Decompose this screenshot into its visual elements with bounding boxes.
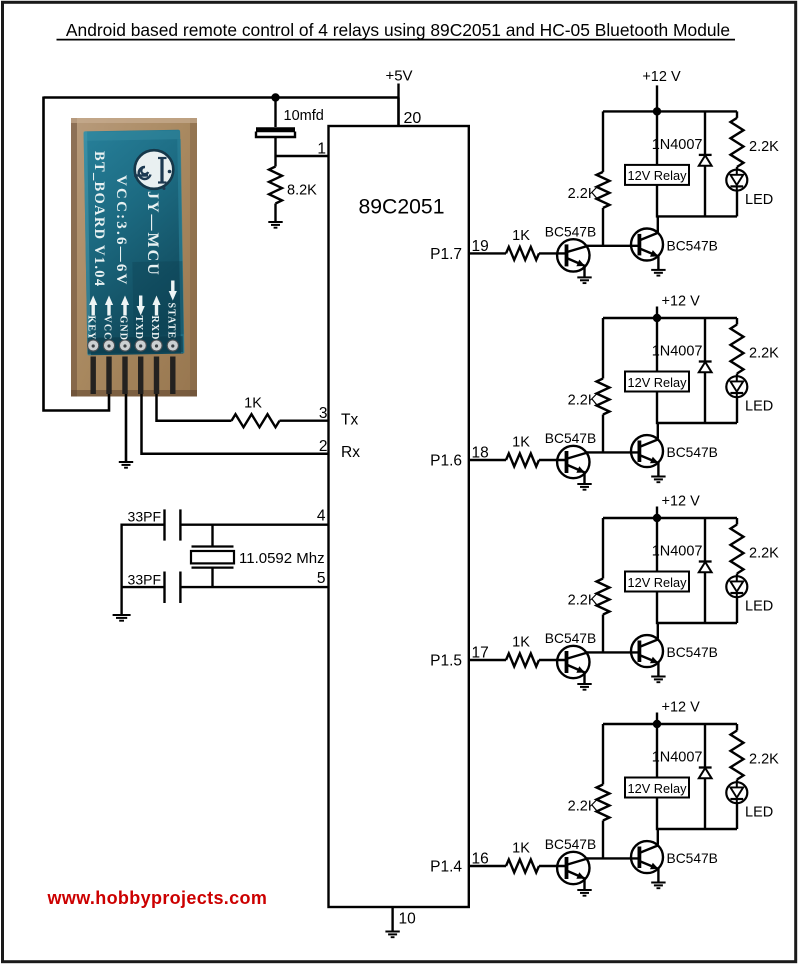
node +12V rail (circuit 3) bbox=[603, 494, 737, 519]
svg-text:1K: 1K bbox=[512, 435, 530, 451]
module pin arrow GND bbox=[121, 296, 129, 316]
svg-text:LED: LED bbox=[745, 192, 773, 208]
svg-text:P1.4: P1.4 bbox=[430, 859, 462, 876]
module pin arrow RXD bbox=[152, 296, 160, 316]
wire Q1 collector / Q2 base node bbox=[587, 651, 640, 653]
resistor 2.2K (LED, circuit 2) bbox=[731, 318, 780, 374]
svg-text:8.2K: 8.2K bbox=[287, 183, 317, 199]
svg-text:20: 20 bbox=[404, 110, 422, 127]
svg-text:12V Relay: 12V Relay bbox=[627, 375, 687, 390]
resistor 1K (base, circuit 3) bbox=[506, 635, 539, 667]
junction dot +12V node (circuit 3) bbox=[653, 514, 661, 522]
module solder pad TXD bbox=[135, 340, 146, 351]
svg-text:1N4007: 1N4007 bbox=[652, 750, 703, 766]
wire relay to bottom rail bbox=[656, 798, 658, 831]
svg-text:BC547B: BC547B bbox=[667, 851, 718, 866]
svg-text:VCC: VCC bbox=[102, 316, 113, 341]
relay coil wire (circuit 1) bbox=[656, 111, 658, 164]
svg-text:+12 V: +12 V bbox=[642, 69, 681, 85]
ground (pin 10) bbox=[385, 932, 399, 938]
module solder pad RXD bbox=[151, 340, 162, 351]
wire bottom rail (circuit 4) bbox=[657, 828, 737, 830]
svg-text:BC547B: BC547B bbox=[667, 445, 718, 460]
svg-text:BC547B: BC547B bbox=[545, 431, 596, 446]
svg-text:VCC:3.6—6V: VCC:3.6—6V bbox=[113, 175, 129, 287]
wire module TXD to pin 2 Rx bbox=[142, 394, 329, 454]
wire resistor to Q1 base bbox=[539, 459, 567, 461]
module header pin RXD bbox=[154, 357, 159, 395]
node +12V rail (circuit 4) bbox=[603, 700, 737, 725]
module pin arrow KEY bbox=[89, 296, 97, 316]
op-amp/IC U1 89C2051 bbox=[329, 126, 469, 907]
svg-text:1K: 1K bbox=[244, 396, 262, 412]
svg-text:16: 16 bbox=[472, 851, 489, 868]
svg-text:12V Relay: 12V Relay bbox=[627, 168, 687, 183]
wire Q1 collector / Q2 base node bbox=[587, 857, 640, 859]
crystal X1 11.0592 Mhz bbox=[191, 525, 325, 587]
resistor 2.2K (LED, circuit 1) bbox=[731, 111, 780, 166]
capacitor C2 33PF bbox=[122, 509, 181, 541]
diode 1N4007 (flyback, circuit 1) bbox=[652, 111, 712, 216]
svg-text:4: 4 bbox=[317, 508, 326, 525]
transistor Q2 BC547B (relay driver, circuit 3) bbox=[631, 623, 718, 677]
resistor 2.2K (pull-up to Q2 base, circuit 3) bbox=[568, 518, 610, 652]
module header pin TXD bbox=[138, 357, 143, 395]
module solder pad KEY bbox=[88, 340, 99, 351]
module solder pad STATE bbox=[167, 340, 178, 351]
wire pin 4 (XTAL) bbox=[180, 524, 328, 526]
svg-text:2.2K: 2.2K bbox=[568, 186, 598, 202]
svg-text:2.2K: 2.2K bbox=[749, 752, 779, 768]
svg-text:BC547B: BC547B bbox=[545, 224, 596, 239]
svg-text:19: 19 bbox=[472, 238, 489, 255]
transistor Q1 BC547B (circuit 1) bbox=[545, 224, 596, 277]
wire caps to ground bbox=[120, 524, 122, 615]
wire module GND to ground bbox=[125, 394, 128, 462]
svg-text:KEY: KEY bbox=[86, 316, 97, 341]
wire pin 19 from IC to base resistor bbox=[469, 252, 506, 254]
wire pin 16 from IC to base resistor bbox=[469, 865, 506, 867]
svg-text:+5V: +5V bbox=[385, 68, 412, 85]
transistor Q1 BC547B (circuit 2) bbox=[545, 431, 596, 484]
svg-text:1K: 1K bbox=[512, 228, 530, 244]
svg-text:12V Relay: 12V Relay bbox=[627, 575, 687, 590]
svg-text:2: 2 bbox=[319, 438, 328, 455]
wire +5V to module VCC bbox=[44, 97, 110, 411]
resistor 2.2K (pull-up to Q2 base, circuit 2) bbox=[568, 318, 610, 452]
transistor Q2 BC547B (relay driver, circuit 4) bbox=[631, 829, 718, 883]
relay 12V Relay (circuit 4) bbox=[625, 778, 689, 798]
svg-text:Tx: Tx bbox=[341, 412, 358, 429]
resistor 2.2K (pull-up to Q2 base, circuit 4) bbox=[568, 724, 610, 858]
relay 12V Relay (circuit 1) bbox=[625, 165, 689, 185]
svg-text:2.2K: 2.2K bbox=[568, 593, 598, 609]
svg-text:BC547B: BC547B bbox=[667, 238, 718, 253]
svg-text:11.0592 Mhz: 11.0592 Mhz bbox=[239, 550, 325, 567]
svg-text:TXD: TXD bbox=[133, 316, 144, 340]
junction dot +12V node (circuit 1) bbox=[653, 107, 661, 115]
LED indicator (circuit 1) bbox=[726, 167, 773, 217]
module header pin VCC bbox=[106, 357, 111, 395]
svg-text:LED: LED bbox=[745, 805, 773, 821]
svg-text:2.2K: 2.2K bbox=[749, 546, 779, 562]
wire bottom rail (circuit 2) bbox=[657, 422, 737, 424]
wire pin 20 top (+5V into IC) bbox=[397, 98, 399, 127]
node +5V bbox=[385, 68, 412, 127]
svg-text:JY—MCU: JY—MCU bbox=[144, 191, 161, 277]
wire relay to bottom rail bbox=[656, 185, 658, 218]
transistor Q2 BC547B (relay driver, circuit 2) bbox=[631, 423, 718, 477]
svg-text:10: 10 bbox=[399, 911, 417, 928]
svg-text:GND: GND bbox=[118, 316, 129, 342]
svg-text:10mfd: 10mfd bbox=[284, 108, 324, 124]
ground (Q2 emitter, circuit 1) bbox=[651, 270, 665, 276]
svg-text:1N4007: 1N4007 bbox=[652, 544, 703, 560]
svg-text:89C2051: 89C2051 bbox=[358, 196, 444, 219]
svg-text:P1.7: P1.7 bbox=[430, 246, 462, 263]
svg-text:2.2K: 2.2K bbox=[749, 346, 779, 362]
svg-text:33PF: 33PF bbox=[128, 509, 161, 525]
junction dot +5V / capacitor bbox=[271, 93, 279, 101]
pin 10 wire and label bbox=[393, 907, 417, 932]
svg-text:www.hobbyprojects.com: www.hobbyprojects.com bbox=[47, 888, 268, 908]
wire module RXD to 1K resistor bbox=[157, 394, 232, 421]
LED indicator (circuit 2) bbox=[726, 374, 773, 424]
ground (Q1 emitter, circuit 2) bbox=[577, 484, 591, 490]
svg-text:BC547B: BC547B bbox=[667, 645, 718, 660]
svg-text:12V Relay: 12V Relay bbox=[627, 781, 687, 796]
module header pin GND bbox=[122, 357, 127, 395]
svg-text:3: 3 bbox=[319, 405, 328, 422]
diode 1N4007 (flyback, circuit 2) bbox=[652, 318, 712, 423]
transistor Q2 BC547B (relay driver, circuit 1) bbox=[631, 216, 718, 270]
diode 1N4007 (flyback, circuit 3) bbox=[652, 518, 712, 623]
svg-text:1K: 1K bbox=[512, 841, 530, 857]
svg-text:+12 V: +12 V bbox=[662, 494, 701, 510]
wire pin 1 (RST) bbox=[276, 155, 329, 157]
svg-text:P1.5: P1.5 bbox=[430, 653, 462, 670]
ground (Q2 emitter, circuit 2) bbox=[651, 477, 665, 483]
LED indicator (circuit 4) bbox=[726, 780, 773, 830]
resistor 2.2K (LED, circuit 4) bbox=[731, 724, 780, 780]
svg-text:BC547B: BC547B bbox=[545, 631, 596, 646]
ground (Q2 emitter, circuit 4) bbox=[651, 883, 665, 889]
transistor Q1 BC547B (circuit 4) bbox=[545, 837, 596, 890]
ground (Q2 emitter, circuit 3) bbox=[651, 677, 665, 683]
junction dot +12V node (circuit 2) bbox=[653, 314, 661, 322]
svg-text:P1.6: P1.6 bbox=[430, 453, 462, 470]
wire pin 18 from IC to base resistor bbox=[469, 459, 506, 461]
junction dot +12V node (circuit 4) bbox=[653, 720, 661, 728]
module PCB (blue) bbox=[84, 130, 185, 356]
wire relay to bottom rail bbox=[656, 392, 658, 425]
diode 1N4007 (flyback, circuit 4) bbox=[652, 724, 712, 829]
svg-text:Rx: Rx bbox=[341, 444, 360, 461]
transistor Q1 BC547B (circuit 3) bbox=[545, 631, 596, 684]
node +12V rail (circuit 1) bbox=[603, 69, 737, 112]
relay coil wire (circuit 3) bbox=[656, 518, 658, 572]
svg-text:33PF: 33PF bbox=[128, 572, 161, 588]
module pin arrow TXD bbox=[137, 296, 145, 316]
resistor 2.2K (LED, circuit 3) bbox=[731, 518, 780, 574]
ground (Q1 emitter, circuit 4) bbox=[577, 890, 591, 896]
module solder pad GND bbox=[119, 340, 130, 351]
wire resistor to Q1 base bbox=[539, 659, 567, 661]
module pin arrow VCC bbox=[105, 296, 113, 316]
relay coil wire (circuit 4) bbox=[656, 724, 658, 778]
module header pin KEY bbox=[91, 357, 96, 395]
svg-text:18: 18 bbox=[472, 445, 489, 462]
svg-text:1: 1 bbox=[317, 141, 326, 158]
svg-text:2.2K: 2.2K bbox=[749, 139, 779, 155]
svg-text:2.2K: 2.2K bbox=[568, 799, 598, 815]
svg-text:1N4007: 1N4007 bbox=[652, 137, 703, 153]
svg-text:2.2K: 2.2K bbox=[568, 393, 598, 409]
wire resistor to Q1 base bbox=[539, 865, 567, 867]
wire 1K to pin 3 Tx bbox=[280, 420, 329, 422]
svg-text:+12 V: +12 V bbox=[662, 700, 701, 716]
ground (crystal caps) bbox=[113, 615, 131, 621]
wire bottom rail (circuit 3) bbox=[657, 622, 737, 624]
ground (Q1 emitter, circuit 3) bbox=[577, 684, 591, 690]
ground (Q1 emitter, circuit 1) bbox=[577, 277, 591, 283]
LED indicator (circuit 3) bbox=[726, 574, 773, 624]
resistor 1K (base, circuit 4) bbox=[506, 841, 539, 873]
module solder pad VCC bbox=[103, 340, 114, 351]
svg-text:LED: LED bbox=[745, 399, 773, 415]
module header pin STATE bbox=[170, 357, 175, 395]
capacitor C1 10mfd bbox=[256, 98, 324, 157]
svg-text:+12 V: +12 V bbox=[662, 294, 701, 310]
capacitor C3 33PF bbox=[122, 572, 181, 604]
ground (8.2K) bbox=[268, 222, 282, 228]
svg-text:5: 5 bbox=[317, 570, 326, 587]
resistor R2 1K (serial) bbox=[232, 396, 280, 428]
svg-text:17: 17 bbox=[472, 645, 489, 662]
svg-text:LED: LED bbox=[745, 599, 773, 615]
wire +5V rail bbox=[44, 96, 399, 99]
module pin arrow STATE bbox=[169, 281, 177, 301]
svg-text:Android based remote control o: Android based remote control of 4 relays… bbox=[66, 20, 730, 40]
title bbox=[57, 20, 736, 40]
wire pin 17 from IC to base resistor bbox=[469, 659, 506, 661]
wire Q1 collector / Q2 base node bbox=[587, 245, 640, 247]
wire resistor to Q1 base bbox=[539, 252, 567, 254]
resistor R1 8.2K bbox=[269, 156, 317, 222]
svg-text:1K: 1K bbox=[512, 635, 530, 651]
ground (module GND) bbox=[119, 462, 133, 468]
wire Q1 collector / Q2 base node bbox=[587, 451, 640, 453]
svg-text:1N4007: 1N4007 bbox=[652, 344, 703, 360]
relay 12V Relay (circuit 2) bbox=[625, 372, 689, 392]
node +12V rail (circuit 2) bbox=[603, 294, 737, 319]
wire relay to bottom rail bbox=[656, 592, 658, 625]
wire pin 5 (XTAL) bbox=[180, 586, 328, 588]
svg-text:BT_BOARD V1.04: BT_BOARD V1.04 bbox=[91, 151, 107, 287]
module logo bbox=[134, 150, 173, 190]
wire bottom rail (circuit 1) bbox=[657, 215, 737, 217]
svg-text:STATE: STATE bbox=[165, 303, 176, 340]
relay coil wire (circuit 2) bbox=[656, 318, 658, 372]
svg-text:BC547B: BC547B bbox=[545, 837, 596, 852]
svg-text:RXD: RXD bbox=[149, 316, 160, 341]
resistor 1K (base, circuit 1) bbox=[506, 228, 539, 260]
relay 12V Relay (circuit 3) bbox=[625, 572, 689, 592]
resistor 2.2K (pull-up to Q2 base, circuit 1) bbox=[568, 111, 610, 245]
resistor 1K (base, circuit 2) bbox=[506, 435, 539, 467]
